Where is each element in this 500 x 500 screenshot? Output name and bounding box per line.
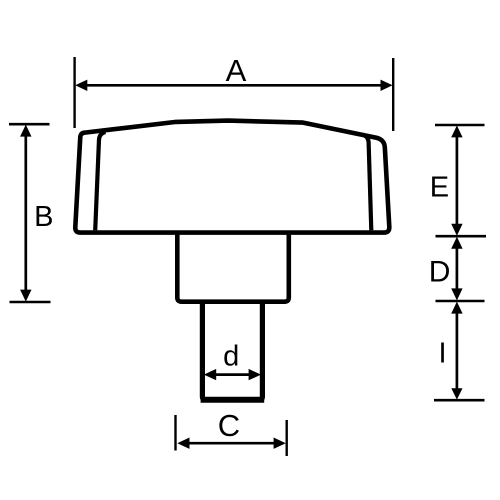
dim B arrowhead bottom bbox=[20, 290, 31, 302]
svg-text:B: B bbox=[34, 201, 53, 233]
dim E arrowhead bottom bbox=[451, 224, 462, 236]
dim A arrowhead left bbox=[75, 80, 87, 91]
dim D arrowhead top bbox=[451, 237, 462, 249]
dim B arrowhead top bbox=[20, 125, 31, 137]
dim A extension line right bbox=[392, 58, 394, 131]
dim D arrowhead bottom bbox=[451, 288, 462, 300]
dim C arrowhead left bbox=[177, 438, 189, 449]
dim d arrowhead left bbox=[204, 369, 216, 380]
stud bottom edge bbox=[201, 397, 265, 403]
knob right lobe edge bbox=[363, 135, 372, 231]
right dims tick E top bbox=[435, 124, 485, 127]
right dims tick E/D boundary bbox=[436, 235, 487, 238]
svg-text:E: E bbox=[430, 172, 449, 204]
dim E line bbox=[456, 134, 459, 227]
dim I line bbox=[456, 309, 459, 392]
dim B line bbox=[24, 134, 27, 292]
knob body outline bbox=[75, 121, 389, 233]
neck bbox=[177, 234, 288, 302]
dim d arrowhead right bbox=[249, 369, 261, 380]
right dims tick I bottom bbox=[434, 399, 485, 402]
dim C line bbox=[188, 442, 274, 445]
svg-text:C: C bbox=[218, 408, 240, 443]
right dims tick D/I boundary bbox=[436, 300, 485, 303]
knob left lobe edge bbox=[95, 132, 105, 230]
dim D line bbox=[456, 244, 459, 293]
stud bbox=[202, 302, 262, 400]
dim A arrowhead right bbox=[381, 80, 393, 91]
dim A line bbox=[84, 84, 384, 87]
dim B tick bottom bbox=[10, 301, 51, 304]
dim d line bbox=[214, 373, 250, 376]
dim C arrowhead right bbox=[274, 438, 286, 449]
dim I arrowhead bottom bbox=[451, 388, 462, 399]
dim A extension line left bbox=[73, 57, 75, 128]
svg-text:d: d bbox=[223, 341, 239, 373]
dim C extension line right bbox=[286, 420, 288, 456]
dim I arrowhead top bbox=[451, 302, 462, 314]
dim E arrowhead top bbox=[451, 125, 462, 137]
svg-text:A: A bbox=[226, 53, 247, 88]
svg-text:I: I bbox=[438, 338, 446, 370]
dim C extension line left bbox=[174, 415, 176, 451]
svg-text:D: D bbox=[429, 255, 451, 288]
dim B tick top bbox=[9, 123, 50, 126]
